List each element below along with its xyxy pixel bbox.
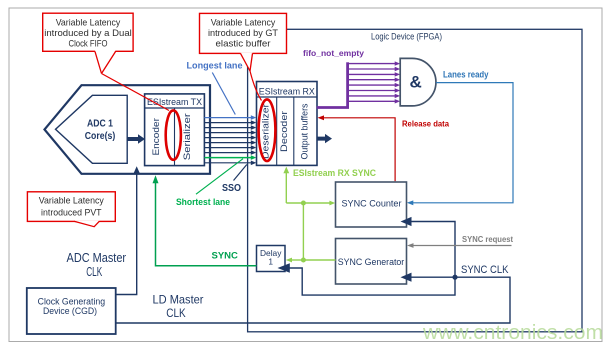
- svg-text:ESIstream RX SYNC: ESIstream RX SYNC: [293, 168, 376, 178]
- thick output arrow from RX: [317, 134, 332, 143]
- svg-text:Variable Latency: Variable Latency: [56, 17, 121, 27]
- svg-text:ADC Master: ADC Master: [67, 251, 127, 265]
- SYNC Generator clock arrow: [401, 273, 412, 282]
- junction dot B: [301, 258, 306, 263]
- wire lane 5: [204, 137, 251, 139]
- branch to Delay: [292, 259, 304, 261]
- dark green SYNC net: [156, 183, 257, 266]
- svg-text:SSO: SSO: [222, 183, 241, 194]
- SYNC Generator box: [336, 239, 407, 285]
- RX divider 2: [293, 97, 295, 165]
- svg-text:introduced by GT: introduced by GT: [208, 28, 278, 38]
- branch to SYNC Generator: [303, 259, 335, 261]
- gray wire SYNC request: [413, 245, 512, 247]
- wire lane 2: [204, 122, 251, 124]
- ADC master clock wire: [116, 175, 137, 295]
- wire lane 3: [204, 127, 251, 129]
- purple bus fifo_not_empty thick segment: [317, 106, 349, 109]
- ESIstream TX box: [145, 94, 205, 166]
- svg-text:SYNC Counter: SYNC Counter: [342, 198, 402, 208]
- callout 2: Variable Latency GT elastic buffer: [250, 71, 262, 101]
- red ellipse around TX encoder/serializer: [166, 110, 181, 159]
- svg-text:introduced PVT: introduced PVT: [41, 208, 102, 218]
- Delay 1 box: [257, 246, 286, 272]
- light green net ESIstream RX SYNC: [285, 173, 287, 204]
- purple fan arrow 5: [348, 84, 396, 86]
- RX divider 1: [276, 97, 278, 165]
- wire lane 8: [204, 152, 251, 154]
- ADC core pentagon: [56, 95, 128, 163]
- purple fan arrow 3: [348, 73, 396, 75]
- blue wire lanes ready: [413, 83, 514, 203]
- svg-text:Shortest lane: Shortest lane: [176, 196, 230, 207]
- purple fan arrow 1: [348, 63, 396, 65]
- junction dot A: [301, 201, 306, 206]
- svg-text:1: 1: [268, 257, 273, 267]
- svg-text:ESIstream RX: ESIstream RX: [259, 86, 315, 96]
- CGD box: [27, 288, 116, 334]
- svg-text:Release data: Release data: [402, 119, 449, 129]
- svg-text:Variable Latency: Variable Latency: [211, 17, 276, 27]
- svg-text:Variable Latency: Variable Latency: [39, 195, 104, 205]
- branch to Delay clock: [290, 268, 456, 295]
- wire lane 10 SSO: [204, 162, 251, 164]
- wire lane 7: [204, 147, 251, 149]
- LD master clock wire: [116, 277, 510, 323]
- red ellipse around deserializer: [259, 99, 276, 161]
- light green vertical: [302, 203, 304, 260]
- callout 3: Variable Latency introduced PVT: [27, 192, 115, 222]
- svg-text:Logic Device (FPGA): Logic Device (FPGA): [371, 31, 442, 41]
- RX title separator: [257, 96, 318, 98]
- purple fan arrow 6: [348, 90, 396, 92]
- svg-text:Decoder: Decoder: [279, 111, 289, 152]
- junction dot SYNC CLK: [452, 275, 457, 280]
- svg-text:SYNC request: SYNC request: [462, 234, 513, 244]
- purple fan arrow 8: [348, 100, 396, 102]
- svg-text:Clock FIFO: Clock FIFO: [69, 39, 108, 49]
- svg-text:Device (CGD): Device (CGD): [43, 306, 97, 316]
- purple fan arrow 2: [348, 68, 396, 70]
- wire lane 9 shortest (green): [204, 157, 251, 159]
- wire lane 4: [204, 132, 251, 134]
- ESIstream RX box: [257, 82, 318, 166]
- purple fan arrow 4: [348, 79, 396, 81]
- svg-text:fifo_not_empty: fifo_not_empty: [303, 48, 364, 58]
- svg-text:Encoder: Encoder: [151, 118, 162, 156]
- red wire release data: [323, 118, 395, 181]
- svg-text:www.cntronics.com: www.cntronics.com: [422, 322, 603, 344]
- svg-text:CLK: CLK: [86, 265, 102, 279]
- svg-text:&: &: [410, 73, 422, 92]
- svg-text:Longest lane: Longest lane: [187, 59, 243, 70]
- svg-text:Output buffers: Output buffers: [299, 103, 309, 159]
- branch to SYNC Counter clock: [411, 222, 455, 278]
- wire lane 1 longest (blue): [204, 117, 251, 119]
- svg-text:SYNC CLK: SYNC CLK: [461, 264, 509, 276]
- AND gate U1: [400, 58, 436, 106]
- svg-text:Lanes ready: Lanes ready: [443, 70, 489, 80]
- svg-text:Core(s): Core(s): [85, 131, 116, 142]
- wire lane 6: [204, 142, 251, 144]
- svg-text:Clock Generating: Clock Generating: [38, 296, 106, 306]
- svg-text:ESIstream TX: ESIstream TX: [147, 97, 202, 107]
- Logic Device (FPGA) box: [248, 29, 582, 332]
- purple fan arrow 7: [348, 95, 396, 97]
- svg-text:Serializer: Serializer: [182, 113, 193, 160]
- svg-text:ADC 1: ADC 1: [87, 119, 113, 130]
- TX divider Encoder/Serializer: [174, 108, 176, 166]
- svg-text:introduced by a Dual: introduced by a Dual: [44, 28, 132, 38]
- svg-text:LD Master: LD Master: [153, 293, 204, 307]
- callout 1: Variable Latency Dual Clock FIFO: [43, 13, 133, 51]
- TX title separator: [145, 107, 205, 109]
- svg-text:SYNC Generator: SYNC Generator: [338, 257, 405, 267]
- thick arrow ADC core to TX: [127, 134, 145, 143]
- svg-text:elastic buffer: elastic buffer: [216, 39, 271, 49]
- svg-text:CLK: CLK: [166, 306, 186, 320]
- SYNC Counter box: [336, 182, 407, 227]
- svg-text:SYNC: SYNC: [212, 251, 239, 262]
- ADC outer hexagon: [45, 85, 211, 174]
